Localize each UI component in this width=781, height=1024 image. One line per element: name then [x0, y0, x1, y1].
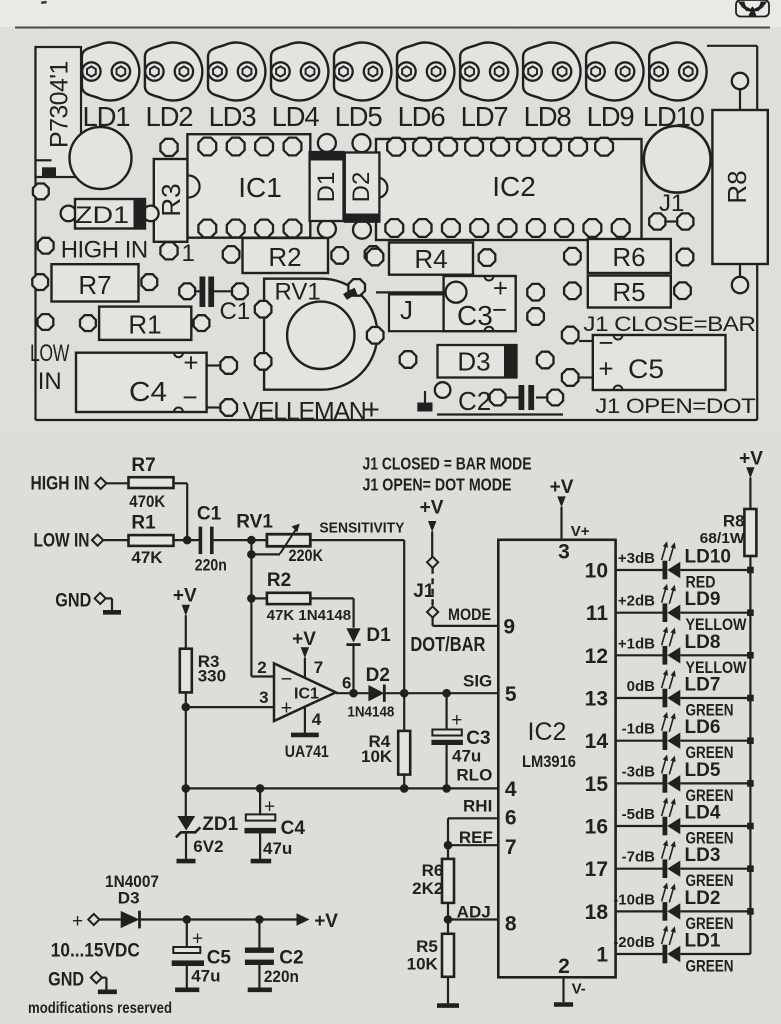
- resistor R2: [267, 570, 352, 624]
- LED LD4 footprint: [271, 43, 328, 133]
- LED LD2 footprint: [145, 43, 202, 133]
- IC2 pin 1 wire: [616, 953, 663, 955]
- Velleman logo top right: [736, 0, 769, 17]
- LED LD1: [662, 925, 751, 963]
- LED LD3: [662, 840, 751, 878]
- bus junction LD9: [747, 609, 754, 616]
- wire R3 to pin3 node: [185, 692, 187, 788]
- wire R5 to ground: [447, 977, 449, 1004]
- ground R5: [437, 1003, 459, 1008]
- text VELLEMAN+: [243, 394, 380, 426]
- wire C1 to RV1: [214, 539, 267, 541]
- power +V for R3: [173, 586, 197, 616]
- power +V for J1: [420, 498, 444, 533]
- junction R4-rail: [400, 784, 409, 793]
- wire + to D3: [99, 918, 120, 920]
- LED LD8: [662, 627, 751, 665]
- IC1 pin4 ground: [291, 707, 319, 735]
- resistor R3: [180, 649, 226, 693]
- IC2 pin 15 wire: [616, 782, 663, 784]
- resistor R2 footprint: [223, 238, 348, 273]
- resistor R6 footprint: [564, 239, 693, 273]
- junction C5 on +V line: [183, 915, 192, 924]
- PCB board outline bottom edge: [36, 419, 758, 421]
- LED LD7 footprint: [460, 43, 517, 132]
- IC2 pin2 V- ground: [554, 955, 586, 1005]
- resistor R5 footprint: [564, 276, 691, 308]
- RV1 wiper arm: [247, 524, 300, 559]
- IC1 footprint: [187, 134, 310, 238]
- IC2 RHI REF loop: [444, 818, 499, 849]
- wire R1 to C1: [174, 539, 201, 541]
- board name label box P7304'1: [36, 47, 82, 177]
- wire REF node to R6: [447, 845, 449, 859]
- node pin3 junction: [182, 703, 191, 712]
- op-amp IC1 UA741: [274, 663, 336, 761]
- LED LD4: [662, 797, 751, 835]
- mounting hole: [70, 127, 132, 189]
- capacitor C1: [195, 504, 227, 575]
- junction ZD1-rail: [182, 784, 191, 793]
- wire RV1 wiper output to SIG node: [310, 539, 404, 541]
- resistor R3 footprint: [154, 139, 188, 260]
- bus junction LD7: [747, 695, 754, 702]
- power +V for IC2 pin3: [550, 477, 574, 540]
- node B junction at RV1: [247, 536, 256, 545]
- PCB board outline left edge: [34, 47, 36, 420]
- capacitor C1 footprint: [179, 277, 250, 326]
- wire J1 to IC2 MODE pin9: [432, 618, 434, 626]
- IC2 pin 17 wire: [616, 868, 663, 870]
- node A junction: [183, 536, 192, 545]
- IC2 pin 14 wire: [616, 740, 663, 742]
- zener diode ZD1: [176, 788, 239, 861]
- LED LD10: [662, 541, 751, 579]
- junction C3-rail: [442, 784, 451, 793]
- capacitor C5 footprint: [562, 327, 726, 390]
- power input terminal +: [72, 911, 99, 932]
- wire RV1 down to R2: [250, 540, 252, 598]
- IC2 pin 11 wire: [616, 612, 663, 614]
- pad right of R2: [365, 246, 382, 263]
- IC2 footprint: [376, 138, 642, 240]
- junction R4-SIG: [400, 689, 409, 698]
- potentiometer RV1 footprint: [255, 279, 384, 390]
- resistor R4 footprint: [367, 243, 496, 275]
- junction D1-SIG: [349, 689, 358, 698]
- text HIGH IN: [38, 237, 148, 264]
- IC2 pin 10 wire: [616, 569, 663, 571]
- text J1 OPEN=DOT: [595, 394, 755, 418]
- IC2 pin 16 wire: [616, 825, 663, 827]
- capacitor C2 footprint: [417, 382, 563, 416]
- wire D2 to IC2 SIG pin5: [384, 692, 498, 694]
- connector J box: [389, 294, 444, 331]
- capacitor C2 power: [245, 920, 304, 990]
- text RLO and pin 4: [456, 766, 516, 802]
- wire HIGH IN to R7: [106, 482, 128, 484]
- resistor R4: [361, 693, 410, 788]
- silkscreen line under C2: [437, 413, 563, 415]
- wire IC1 pin6 output: [336, 692, 369, 694]
- wire IC1 pin2: [250, 598, 252, 676]
- wire R7 to node A: [174, 482, 188, 484]
- LED LD9 footprint: [586, 43, 643, 132]
- input terminal HIGH IN: [31, 474, 107, 495]
- LED LD1 footprint: [82, 43, 139, 133]
- zener ZD1 footprint: [61, 199, 159, 229]
- bus junction LD3: [747, 865, 754, 872]
- wire R6 to ADJ node: [447, 903, 449, 934]
- PCB board outline right edge: [756, 46, 758, 420]
- capacitor C4: [245, 788, 306, 861]
- resistor R7 footprint: [32, 264, 157, 301]
- ground terminal GND lower: [48, 970, 117, 992]
- junction C3-SIG: [442, 689, 451, 698]
- jumper J1 footprint: [644, 126, 711, 230]
- IC2 pin 18 wire: [616, 910, 663, 912]
- bus junction LD4: [747, 823, 754, 830]
- bus junction LD2: [747, 908, 754, 915]
- text J1 CLOSE=BAR: [583, 312, 755, 336]
- ground terminal GND upper: [55, 591, 121, 613]
- junction C4-rail: [256, 784, 265, 793]
- LED LD2: [662, 883, 751, 921]
- potentiometer RV1: [236, 512, 323, 566]
- wire +V to R3: [185, 615, 187, 649]
- LED anode bus: [749, 570, 751, 954]
- bus junction LD5: [747, 780, 754, 787]
- LED LD10 footprint: [643, 43, 707, 132]
- wire D3 to +V arrow: [140, 918, 298, 920]
- capacitor C3 footprint: [376, 273, 544, 331]
- bus junction LD10: [747, 567, 754, 574]
- diode D1: [346, 625, 391, 646]
- resistor R1 footprint: [38, 307, 210, 340]
- text V+ and pin 3: [558, 523, 590, 564]
- capacitor C3: [431, 693, 490, 788]
- text RHI and pin 6: [463, 797, 517, 830]
- capacitor C4 footprint: [76, 348, 237, 416]
- text REF and pin 7: [459, 828, 517, 859]
- junction C2 on +V line: [255, 915, 264, 924]
- wire IC1 pin3: [186, 706, 274, 708]
- LED LD7: [662, 669, 751, 707]
- header rule: [15, 27, 770, 29]
- wire node B to R2: [251, 597, 267, 599]
- capacitor C5: [172, 920, 232, 990]
- diode D3: [121, 911, 140, 929]
- power +V for IC1 pin7: [292, 629, 316, 679]
- power +V for R8: [739, 449, 763, 479]
- bus junction LD6: [747, 737, 754, 744]
- IC2 ADJ pin8 wire: [448, 918, 498, 920]
- wire D1 to SIG line: [352, 646, 354, 693]
- resistor R1: [129, 513, 174, 568]
- input terminal LOW IN: [34, 531, 104, 552]
- wire LOW IN to R1: [103, 539, 128, 541]
- wire R2 to D1: [310, 597, 353, 599]
- jumper J1: [413, 532, 438, 618]
- LED LD5: [662, 755, 751, 793]
- diode D2 footprint: [345, 134, 380, 239]
- resistor R5: [407, 934, 454, 977]
- LED LD8 footprint: [523, 43, 580, 132]
- diode D2: [347, 665, 394, 721]
- RLO rail wire: [186, 787, 499, 789]
- resistor R7: [129, 455, 174, 511]
- text SIG and pin 5: [463, 672, 517, 707]
- resistor R6: [412, 859, 454, 903]
- text LOW IN: [30, 340, 70, 395]
- resistor R8: [700, 478, 757, 570]
- resistor R8 footprint: [712, 73, 767, 293]
- diode D3 footprint: [400, 345, 554, 378]
- IC2 pin 12 wire: [616, 654, 663, 656]
- LED LD6 footprint: [397, 43, 454, 133]
- diode D1 footprint: [310, 134, 344, 238]
- pad on left border: [33, 184, 49, 200]
- IC1 pin1 pad and label: [182, 240, 195, 267]
- bus junction LD8: [747, 652, 754, 659]
- stray scan mark top left: [41, 1, 47, 4]
- LED LD6: [662, 712, 751, 750]
- LED LD5 footprint: [334, 43, 391, 133]
- PCB board outline top right segment: [707, 45, 757, 47]
- IC2 pin 13 wire: [616, 697, 663, 699]
- text ADJ and pin 8: [457, 903, 517, 936]
- +V output arrowhead: [297, 911, 339, 932]
- IC2 LM3916 body: [498, 540, 615, 978]
- LED LD3 footprint: [208, 43, 265, 133]
- LED LD9: [662, 584, 751, 622]
